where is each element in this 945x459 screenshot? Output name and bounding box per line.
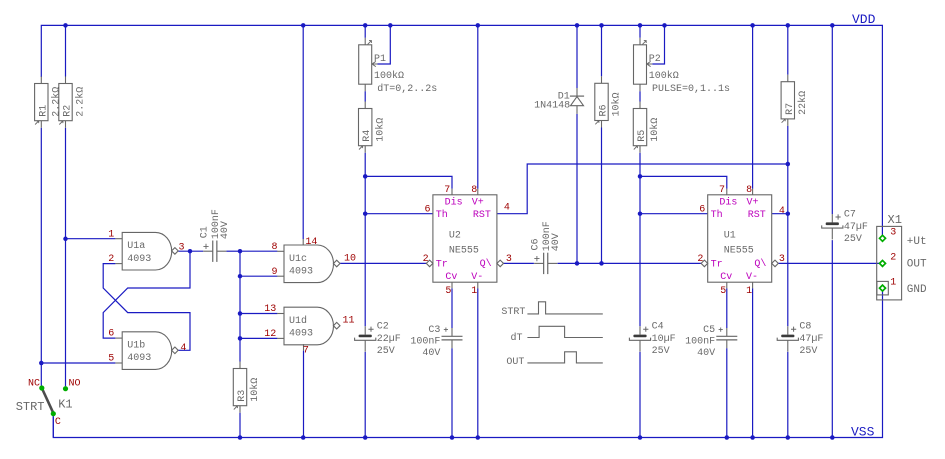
svg-text:6: 6 bbox=[108, 329, 114, 340]
svg-text:Dis: Dis bbox=[445, 196, 463, 208]
svg-text:4093: 4093 bbox=[127, 353, 151, 364]
svg-text:C4: C4 bbox=[652, 322, 664, 333]
junction VSS/R3 bbox=[238, 435, 243, 440]
svg-text:47µF: 47µF bbox=[799, 334, 823, 345]
NAND gate U1d (4093) body bbox=[277, 307, 333, 345]
svg-text:U1: U1 bbox=[724, 230, 736, 241]
svg-text:1: 1 bbox=[471, 286, 477, 297]
svg-text:3: 3 bbox=[779, 254, 785, 265]
resistor R3 body bbox=[233, 362, 246, 413]
junction node B / U2 Dis bbox=[363, 174, 368, 179]
svg-text:14: 14 bbox=[305, 237, 317, 248]
wire U1 Cv pin5 to C5 bbox=[726, 288, 728, 328]
svg-text:7: 7 bbox=[719, 185, 725, 196]
capacitor C8 body (electrolytic) bbox=[777, 326, 798, 351]
svg-text:RST: RST bbox=[473, 210, 491, 221]
capacitor C4 body (electrolytic) bbox=[629, 326, 650, 351]
svg-text:22kΩ: 22kΩ bbox=[797, 91, 809, 115]
svg-text:PULSE=0,1..1s: PULSE=0,1..1s bbox=[652, 84, 730, 95]
svg-text:40V: 40V bbox=[551, 233, 562, 251]
potentiometer P2 body bbox=[634, 38, 653, 91]
junction node D / U1 Dis bbox=[638, 174, 643, 179]
svg-text:8: 8 bbox=[471, 185, 477, 196]
junction VSS/C7 bbox=[830, 435, 835, 440]
wire C4 bottom to VSS bbox=[639, 352, 641, 438]
svg-text:5: 5 bbox=[445, 286, 451, 297]
wire C1 to node A bbox=[226, 250, 240, 252]
junction VSS/U2 V- bbox=[476, 435, 481, 440]
svg-text:dT: dT bbox=[510, 332, 522, 344]
capacitor C5 body (film) bbox=[716, 328, 737, 349]
wire C7 top to VDD bbox=[831, 25, 833, 214]
svg-text:C2: C2 bbox=[377, 322, 389, 333]
wire U2 Q pin3 output to C6 bbox=[504, 262, 534, 264]
capacitor C3 body (film) bbox=[442, 328, 463, 349]
wire P1 to R4 bbox=[364, 91, 366, 101]
NAND gate U1b (4093) body bbox=[115, 332, 171, 370]
svg-text:100nF: 100nF bbox=[685, 337, 715, 348]
junction VDD/P1 bbox=[363, 23, 368, 28]
junction VSS/pin7 bbox=[301, 435, 306, 440]
svg-text:U1c: U1c bbox=[289, 254, 307, 265]
diode D1 body bbox=[570, 88, 584, 114]
svg-text:25V: 25V bbox=[844, 234, 862, 245]
svg-text:R5: R5 bbox=[637, 130, 648, 142]
junction VDD/pin14 bbox=[301, 23, 306, 28]
svg-text:10: 10 bbox=[344, 253, 356, 264]
wire U1c pin14 to VDD bbox=[302, 25, 304, 239]
wire R2 top bbox=[65, 25, 67, 76]
svg-text:25V: 25V bbox=[652, 346, 670, 357]
junction R7 / U2 RST bbox=[786, 162, 791, 167]
svg-text:Th: Th bbox=[436, 209, 448, 221]
svg-text:4: 4 bbox=[779, 206, 785, 217]
connector X1 pin 1 bbox=[880, 285, 886, 291]
svg-text:OUT: OUT bbox=[506, 357, 524, 368]
svg-text:4: 4 bbox=[504, 203, 510, 214]
svg-text:X1: X1 bbox=[888, 213, 902, 227]
wire U1 V+ pin8 to VDD bbox=[752, 25, 754, 188]
svg-text:C: C bbox=[55, 417, 61, 428]
junction VDD/C7 bbox=[830, 23, 835, 28]
wire R6 bottom to node C bbox=[601, 128, 603, 264]
svg-text:7: 7 bbox=[444, 185, 450, 196]
wire C6 to U1 Tr bbox=[558, 262, 702, 264]
svg-text:C8: C8 bbox=[799, 322, 811, 333]
wire U2 Th pin6 bbox=[365, 213, 433, 215]
svg-text:U2: U2 bbox=[449, 230, 461, 241]
wire P2 wiper to VDD bbox=[652, 25, 664, 64]
svg-text:6: 6 bbox=[699, 205, 705, 216]
svg-text:1: 1 bbox=[108, 229, 114, 240]
junction VSS/C2 bbox=[363, 435, 368, 440]
svg-text:2: 2 bbox=[890, 252, 896, 263]
junction node B / U2 Th bbox=[363, 211, 368, 216]
svg-text:R3: R3 bbox=[237, 390, 248, 402]
svg-text:4093: 4093 bbox=[127, 254, 151, 265]
svg-text:U1b: U1b bbox=[127, 340, 145, 352]
inversion bubble U1 Tr input bbox=[701, 260, 708, 267]
junction VSS/U1 V- bbox=[750, 435, 755, 440]
svg-text:VSS: VSS bbox=[851, 425, 875, 440]
svg-text:+Ut: +Ut bbox=[907, 236, 927, 248]
svg-text:Cv: Cv bbox=[445, 272, 457, 283]
wire switch C to VSS bbox=[52, 416, 54, 437]
wire U1 Dis pin7 bbox=[640, 176, 727, 188]
inversion bubble U1a output bbox=[172, 248, 179, 255]
svg-text:5: 5 bbox=[108, 354, 114, 365]
svg-text:GND: GND bbox=[907, 284, 927, 296]
wire U1d pin12 input bbox=[240, 337, 277, 339]
svg-text:V+: V+ bbox=[472, 197, 484, 208]
junction VDD/R7 bbox=[786, 23, 791, 28]
svg-text:3: 3 bbox=[179, 242, 185, 253]
junction VDD/R2 bbox=[63, 23, 68, 28]
wire U2 Dis pin7 bbox=[365, 176, 452, 188]
svg-text:Q\: Q\ bbox=[754, 258, 766, 270]
svg-text:12: 12 bbox=[264, 329, 276, 340]
svg-text:V-: V- bbox=[471, 272, 483, 283]
svg-text:2: 2 bbox=[108, 254, 114, 265]
junction node A / pin13 bbox=[238, 311, 243, 316]
svg-text:11: 11 bbox=[343, 316, 355, 327]
wire C5 bottom to VSS bbox=[726, 348, 728, 437]
svg-text:40V: 40V bbox=[220, 221, 231, 239]
capacitor C2 body (electrolytic) bbox=[355, 326, 376, 351]
svg-text:4093: 4093 bbox=[289, 329, 313, 340]
svg-text:100nF: 100nF bbox=[410, 337, 440, 348]
svg-text:R4: R4 bbox=[362, 130, 373, 142]
svg-text:NO: NO bbox=[69, 378, 81, 389]
wire latch: U1a output down-left to U1b pin6 bbox=[103, 251, 190, 338]
svg-text:R1: R1 bbox=[38, 105, 49, 117]
svg-text:RST: RST bbox=[748, 210, 766, 221]
junction VSS/C5 bbox=[725, 435, 730, 440]
inversion bubble U2 Q output bbox=[497, 260, 504, 267]
junction VSS/C3 bbox=[450, 435, 455, 440]
svg-text:10kΩ: 10kΩ bbox=[649, 118, 661, 142]
junction R1/pin5 bbox=[39, 361, 44, 366]
svg-text:3: 3 bbox=[506, 254, 512, 265]
svg-text:10kΩ: 10kΩ bbox=[374, 118, 386, 142]
wire U1d pin7 to VSS bbox=[303, 344, 305, 351]
connector X1 body bbox=[877, 226, 902, 300]
svg-text:Cv: Cv bbox=[720, 272, 732, 283]
svg-text:R6: R6 bbox=[599, 104, 610, 116]
svg-text:10kΩ: 10kΩ bbox=[611, 92, 623, 116]
inversion bubble U1b output bbox=[172, 347, 179, 354]
junction R7 / U1 RST bbox=[786, 211, 791, 216]
svg-text:STRT: STRT bbox=[501, 307, 525, 318]
wire U1d pin13 input bbox=[240, 313, 277, 315]
svg-text:8: 8 bbox=[272, 242, 278, 253]
wire R5 bottom / node D vertical to C4 bbox=[639, 153, 641, 327]
svg-text:K1: K1 bbox=[58, 397, 72, 411]
svg-text:V-: V- bbox=[746, 272, 758, 283]
svg-text:C5: C5 bbox=[703, 325, 715, 336]
junction VDD/P1 wiper bbox=[388, 23, 393, 28]
svg-text:Dis: Dis bbox=[719, 196, 737, 208]
svg-text:47µF: 47µF bbox=[844, 222, 868, 233]
wire C8 bottom to VSS bbox=[787, 352, 789, 438]
svg-text:P2: P2 bbox=[649, 54, 661, 65]
wire D1 cathode to VDD bbox=[576, 25, 578, 88]
potentiometer P1 body bbox=[359, 38, 378, 91]
svg-text:NE555: NE555 bbox=[449, 245, 479, 256]
wire U1c pin8 input bbox=[240, 250, 277, 252]
resistor R2 body bbox=[59, 77, 72, 128]
junction VDD/P2 bbox=[638, 23, 643, 28]
junction R6 / node C bbox=[599, 261, 604, 266]
svg-text:Th: Th bbox=[711, 209, 723, 221]
resistor R1 body bbox=[35, 77, 48, 128]
capacitor C6 body (film, horizontal) bbox=[534, 253, 557, 274]
wire R2 bottom to switch NO bbox=[65, 128, 67, 387]
junction VDD/P2 wiper bbox=[662, 23, 667, 28]
junction VDD/U1 V+ bbox=[750, 23, 755, 28]
wire U2 V+ pin8 to VDD bbox=[477, 25, 479, 188]
junction node A / pin9 bbox=[238, 274, 243, 279]
svg-text:NC: NC bbox=[28, 378, 40, 389]
svg-text:4093: 4093 bbox=[289, 266, 313, 277]
switch K1 contacts and lever bbox=[39, 385, 68, 416]
wire R4 bottom / node B vertical to C2 bbox=[364, 153, 366, 327]
wire R3 bottom to VSS bbox=[239, 413, 241, 438]
svg-text:6: 6 bbox=[425, 205, 431, 216]
inversion bubble U2 Tr input bbox=[426, 260, 433, 267]
resistor R6 body bbox=[595, 76, 608, 127]
svg-text:Q\: Q\ bbox=[480, 258, 492, 270]
junction node A / pin12 bbox=[238, 336, 243, 341]
svg-text:U1d: U1d bbox=[289, 315, 307, 327]
svg-text:dT=0,2..2s: dT=0,2..2s bbox=[377, 83, 437, 95]
wire VSS rail bbox=[53, 291, 882, 438]
svg-text:Tr: Tr bbox=[711, 259, 723, 270]
wire P2 to R5 bbox=[639, 91, 641, 101]
svg-text:13: 13 bbox=[264, 304, 276, 315]
svg-text:R7: R7 bbox=[785, 103, 796, 115]
svg-text:2.2kΩ: 2.2kΩ bbox=[75, 87, 87, 117]
svg-text:2.2kΩ: 2.2kΩ bbox=[51, 87, 63, 117]
wire U2 RST pin4 to R7 node bbox=[497, 164, 788, 214]
timer IC U2 NE555 body bbox=[433, 189, 497, 289]
wire U1 Th pin6 bbox=[640, 213, 708, 215]
wire VDD rail bbox=[41, 25, 882, 235]
junction VDD/R6 bbox=[599, 23, 604, 28]
svg-text:C6: C6 bbox=[530, 238, 541, 250]
junction node D / U1 Th bbox=[638, 211, 643, 216]
wire P2 top to VDD bbox=[639, 25, 641, 37]
svg-text:40V: 40V bbox=[422, 348, 440, 359]
connector X1 pin 2 bbox=[880, 260, 886, 266]
svg-text:STRT: STRT bbox=[16, 400, 45, 414]
svg-text:40V: 40V bbox=[697, 348, 715, 359]
timer IC U1 NE555 body bbox=[708, 189, 772, 289]
svg-text:8: 8 bbox=[746, 185, 752, 196]
svg-text:22µF: 22µF bbox=[377, 334, 401, 345]
junction U1a output node bbox=[188, 249, 193, 254]
resistor R4 body bbox=[359, 102, 372, 153]
junction node A / pin8 bbox=[238, 249, 243, 254]
inversion bubble U1 Q output bbox=[772, 260, 779, 267]
svg-text:1: 1 bbox=[890, 277, 896, 288]
waveform OUT trace bbox=[527, 352, 602, 363]
wire U1c pin9 input bbox=[240, 275, 277, 277]
wire D1 anode to node C bbox=[576, 114, 578, 264]
svg-text:R2: R2 bbox=[63, 105, 74, 117]
svg-text:4: 4 bbox=[180, 343, 186, 354]
wire P1 top to VDD bbox=[364, 25, 366, 37]
svg-text:OUT: OUT bbox=[907, 259, 927, 271]
svg-text:10kΩ: 10kΩ bbox=[249, 378, 261, 402]
wire latch: U1b pin4 output up-left to U1a pin2 bbox=[103, 264, 190, 351]
wire U2 V- pin1 to VSS bbox=[477, 288, 479, 437]
svg-text:1N4148: 1N4148 bbox=[534, 101, 570, 112]
svg-text:C3: C3 bbox=[428, 325, 440, 336]
svg-text:100kΩ: 100kΩ bbox=[649, 70, 679, 82]
waveform dT trace bbox=[527, 326, 602, 337]
resistor R5 body bbox=[633, 102, 646, 153]
resistor R7 body bbox=[781, 75, 794, 126]
inversion bubble U1c output bbox=[333, 260, 340, 267]
wire U1a pin3 output to C1 bbox=[178, 250, 203, 252]
wire U1 Q pin3 output to X1 OUT bbox=[777, 262, 879, 264]
junction R2/pin1 bbox=[63, 237, 68, 242]
wire C2 bottom to VSS bbox=[364, 352, 366, 438]
junction D1 / node C bbox=[575, 261, 580, 266]
svg-text:NE555: NE555 bbox=[724, 245, 754, 256]
wire U1 V- pin1 to VSS bbox=[752, 288, 754, 437]
svg-text:VDD: VDD bbox=[852, 12, 876, 27]
wire U1c pin10 output to U2 Tr bbox=[340, 262, 426, 264]
wire R7 top to VDD bbox=[787, 25, 789, 74]
svg-text:P1: P1 bbox=[374, 54, 386, 65]
connector X1 pin 3 bbox=[880, 235, 886, 241]
wire C3 bottom to VSS bbox=[451, 348, 453, 437]
capacitor C1 body (film, horizontal) bbox=[203, 241, 226, 262]
waveform STRT trace bbox=[527, 302, 602, 314]
svg-text:U1a: U1a bbox=[127, 241, 145, 252]
svg-text:Tr: Tr bbox=[436, 259, 448, 270]
NAND gate U1c (4093) body bbox=[277, 245, 333, 283]
svg-text:100kΩ: 100kΩ bbox=[374, 70, 404, 82]
svg-text:1: 1 bbox=[746, 286, 752, 297]
wire R6 top to VDD bbox=[601, 25, 603, 76]
junction VSS/C4 bbox=[638, 435, 643, 440]
wire node A vertical bus to R3 bbox=[239, 251, 241, 361]
svg-text:5: 5 bbox=[720, 286, 726, 297]
wire C7 bottom to VSS bbox=[831, 240, 833, 437]
svg-text:9: 9 bbox=[272, 267, 278, 278]
wire U1b pin5 input bbox=[41, 362, 115, 364]
wire R7 bottom through RST nodes to C8 bbox=[787, 126, 789, 326]
svg-text:3: 3 bbox=[890, 228, 896, 239]
svg-text:7: 7 bbox=[303, 345, 309, 356]
svg-text:2: 2 bbox=[697, 254, 703, 265]
svg-text:C7: C7 bbox=[844, 209, 856, 220]
inversion bubble U1d output bbox=[333, 322, 340, 329]
svg-text:C1: C1 bbox=[200, 226, 211, 238]
junction VDD/D1 bbox=[575, 23, 580, 28]
wire R1 bottom to switch NC bbox=[40, 128, 42, 386]
svg-text:V+: V+ bbox=[747, 197, 759, 208]
svg-text:2: 2 bbox=[423, 254, 429, 265]
capacitor C7 body (electrolytic) bbox=[822, 214, 843, 239]
wire P1 wiper to VDD bbox=[378, 25, 391, 64]
svg-text:25V: 25V bbox=[377, 346, 395, 357]
wire U1 RST pin4 bbox=[772, 213, 788, 215]
NAND gate U1a (4093) body bbox=[115, 232, 171, 270]
wire U1a pin1 input bbox=[66, 238, 116, 240]
junction VSS/C8 bbox=[786, 435, 791, 440]
svg-text:10µF: 10µF bbox=[652, 334, 676, 345]
junction VDD/U2 V+ bbox=[476, 23, 481, 28]
wire U2 Cv pin5 to C3 bbox=[451, 288, 453, 328]
svg-text:25V: 25V bbox=[799, 346, 817, 357]
